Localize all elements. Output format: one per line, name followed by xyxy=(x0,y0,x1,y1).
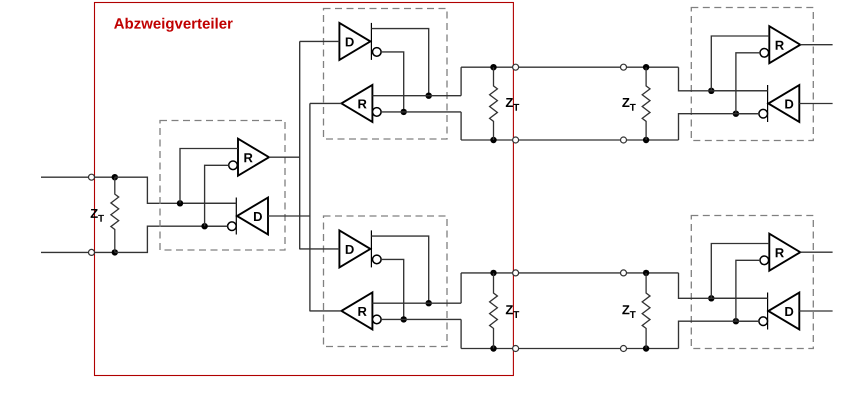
wire input line 2 to ZT xyxy=(95,251,115,253)
driver U1D xyxy=(235,198,237,235)
title label Abzweigverteiler xyxy=(114,18,124,28)
transceiver U3 dashed box xyxy=(324,216,448,347)
transceiver U2 dashed box xyxy=(324,9,448,140)
junction dot bottom rail A at R4 xyxy=(490,270,496,276)
inverting input bubble U2R xyxy=(373,108,382,117)
wire branch U4 line-A to R input xyxy=(711,36,769,91)
wire U5R output xyxy=(800,251,832,253)
terminal input line 2 xyxy=(89,249,95,255)
receiver U2R xyxy=(341,85,372,122)
label ZT of R4 xyxy=(506,305,513,314)
terminal rail B right xyxy=(621,137,627,143)
junction dot bottom rail B at R4 xyxy=(490,345,496,351)
inverting input bubble U3R xyxy=(373,315,382,324)
junction dot U1 line-B xyxy=(201,223,207,229)
Abzweigverteiler boundary box xyxy=(95,3,514,376)
receiver U1R xyxy=(238,139,269,176)
inverting output bubble U3D xyxy=(373,255,382,264)
junction dot rail A at R2 xyxy=(490,64,496,70)
wire jog U3 line-A up to top rail xyxy=(460,273,462,303)
inverting input bubble U5R xyxy=(760,256,769,265)
wire U1D input from node V2 xyxy=(268,215,310,217)
wire U2D true output to line-A xyxy=(371,29,428,96)
wire jog bottom rail A down to U5 line-A xyxy=(679,273,768,298)
terminal rail B left xyxy=(513,137,519,143)
junction dot U3 line-B xyxy=(401,316,407,322)
wire top line rail B xyxy=(461,139,678,141)
label ZT of R5 xyxy=(622,305,629,314)
wire U3D input from V1 xyxy=(300,248,340,250)
wire jog U2 line-A up to top rail xyxy=(460,67,462,96)
wire input line 2 jog to U1 xyxy=(115,226,228,252)
wire line-B from U3R bubble xyxy=(381,318,461,320)
wire line-A from U3R input xyxy=(372,302,461,304)
wire U3R output to V2 xyxy=(310,310,342,312)
junction dot bottom rail A at R5 xyxy=(643,270,649,276)
wire U3D true output to line-A xyxy=(371,236,428,303)
wire bottom line rail B xyxy=(461,348,678,350)
junction dot U2 line-A xyxy=(426,93,432,99)
wire branch U1 line-B to R bubble xyxy=(205,165,229,226)
inverting input bubble U1R xyxy=(229,161,238,170)
junction dot rail B at R3 xyxy=(643,137,649,143)
wire line-A to U1D output bar xyxy=(180,202,236,204)
wire branch U1 line-A to R input xyxy=(180,149,238,204)
wire U4D input xyxy=(799,103,832,105)
resistor R2 ZT line termination xyxy=(490,67,498,140)
wire line-B to U5D bubble xyxy=(736,320,759,322)
junction dot U5 line-B xyxy=(733,318,739,324)
wire U2D bubble to line-B xyxy=(381,52,404,112)
wire line-A from U2R input xyxy=(372,95,461,97)
wire line-A to U5D output bar xyxy=(711,297,767,299)
wire U2D input from V1 xyxy=(300,40,340,42)
resistor R3 ZT line termination xyxy=(642,67,650,140)
receiver U5R xyxy=(769,234,800,271)
driver U4D xyxy=(767,85,769,122)
terminal rail A right xyxy=(621,64,627,70)
driver U2D xyxy=(370,23,372,60)
wire branch U5 line-A to R input xyxy=(711,244,769,299)
terminal bottom rail A left xyxy=(513,270,519,276)
wire jog top rail B up to U4 line-B xyxy=(679,114,759,140)
terminal input line 1 xyxy=(89,174,95,180)
receiver U4R xyxy=(769,26,800,63)
wire bottom line rail A xyxy=(461,272,678,274)
resistor R1 ZT input termination xyxy=(111,177,119,252)
wire branch U5 line-B to R bubble xyxy=(736,260,760,321)
transceiver U4 dashed box xyxy=(691,8,813,141)
junction dot U5 line-A xyxy=(708,295,714,301)
driver U3D xyxy=(370,230,372,267)
terminal bottom rail B right xyxy=(621,346,627,352)
terminal bottom rail A right xyxy=(621,270,627,276)
transceiver U5 dashed box xyxy=(691,216,813,349)
transceiver U1 dashed box xyxy=(160,121,285,251)
wire branch U4 line-B to R bubble xyxy=(736,53,760,114)
wire input line 1 to ZT xyxy=(95,176,115,178)
wire jog top rail A down to U4 line-A xyxy=(679,67,768,91)
wire U1R output to node V1 xyxy=(269,156,300,158)
junction dot bottom rail B at R5 xyxy=(643,345,649,351)
junction dot rail B at R2 xyxy=(490,137,496,143)
inverting output bubble U1D xyxy=(228,222,237,231)
junction dot U4 line-B xyxy=(733,111,739,117)
inverting output bubble U5D xyxy=(759,317,768,326)
inverting input bubble U4R xyxy=(760,49,769,58)
wire line-B from U2R bubble xyxy=(381,111,461,113)
label ZT of R3 xyxy=(622,98,629,107)
junction dot U2 line-B xyxy=(401,109,407,115)
junction dot U4 line-A xyxy=(708,88,714,94)
wire U2R output to V2 xyxy=(310,102,342,104)
receiver U3R xyxy=(341,292,372,329)
junction dot U3 line-A xyxy=(426,300,432,306)
wire input line 2 xyxy=(41,251,89,253)
wire jog U2 line-B down to bottom rail xyxy=(460,112,462,140)
wire jog bottom rail B up to U5 line-B xyxy=(679,321,759,348)
wire line-B to U1D bubble xyxy=(205,225,228,227)
label ZT of R1 xyxy=(91,209,98,218)
wire U4R output xyxy=(800,44,832,46)
wire input line 1 jog to U1 xyxy=(115,177,237,203)
resistor R5 ZT line termination xyxy=(642,273,650,349)
junction dot U1 line-A xyxy=(177,200,183,206)
wire vertical bus V2 (U2R/U3R outputs to U1D) xyxy=(309,103,311,311)
inverting output bubble U4D xyxy=(759,109,768,118)
terminal bottom rail B left xyxy=(513,346,519,352)
wire top line rail A xyxy=(461,66,678,68)
inverting output bubble U2D xyxy=(373,48,382,57)
terminal rail A left xyxy=(513,64,519,70)
junction dot rail A at R3 xyxy=(643,64,649,70)
junction dot input line 2 xyxy=(112,249,118,255)
wire line-A to U4D output bar xyxy=(711,90,767,92)
wire input line 1 xyxy=(41,176,89,178)
label ZT of R2 xyxy=(506,98,513,107)
resistor R4 ZT line termination xyxy=(490,273,498,349)
wire vertical bus V1 (U1R output to U2D/U3D) xyxy=(299,41,301,249)
wire U3D bubble to line-B xyxy=(381,259,404,319)
driver U5D xyxy=(767,293,769,330)
junction dot input line 1 xyxy=(112,174,118,180)
wire jog U3 line-B down to bottom rail xyxy=(460,319,462,348)
wire U5D input xyxy=(799,310,832,312)
wire line-B to U4D bubble xyxy=(736,113,759,115)
